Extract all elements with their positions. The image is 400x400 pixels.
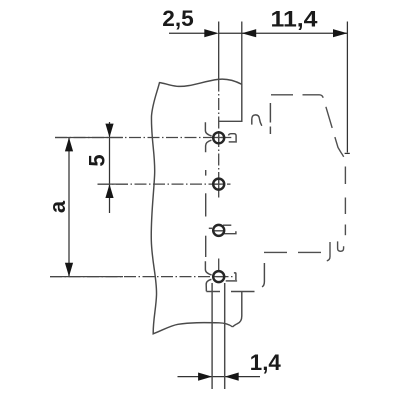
- svg-text:a: a: [45, 200, 70, 213]
- svg-text:2,5: 2,5: [162, 6, 194, 31]
- svg-text:1,4: 1,4: [250, 350, 282, 375]
- svg-text:11,4: 11,4: [271, 7, 319, 32]
- svg-text:5: 5: [85, 154, 110, 166]
